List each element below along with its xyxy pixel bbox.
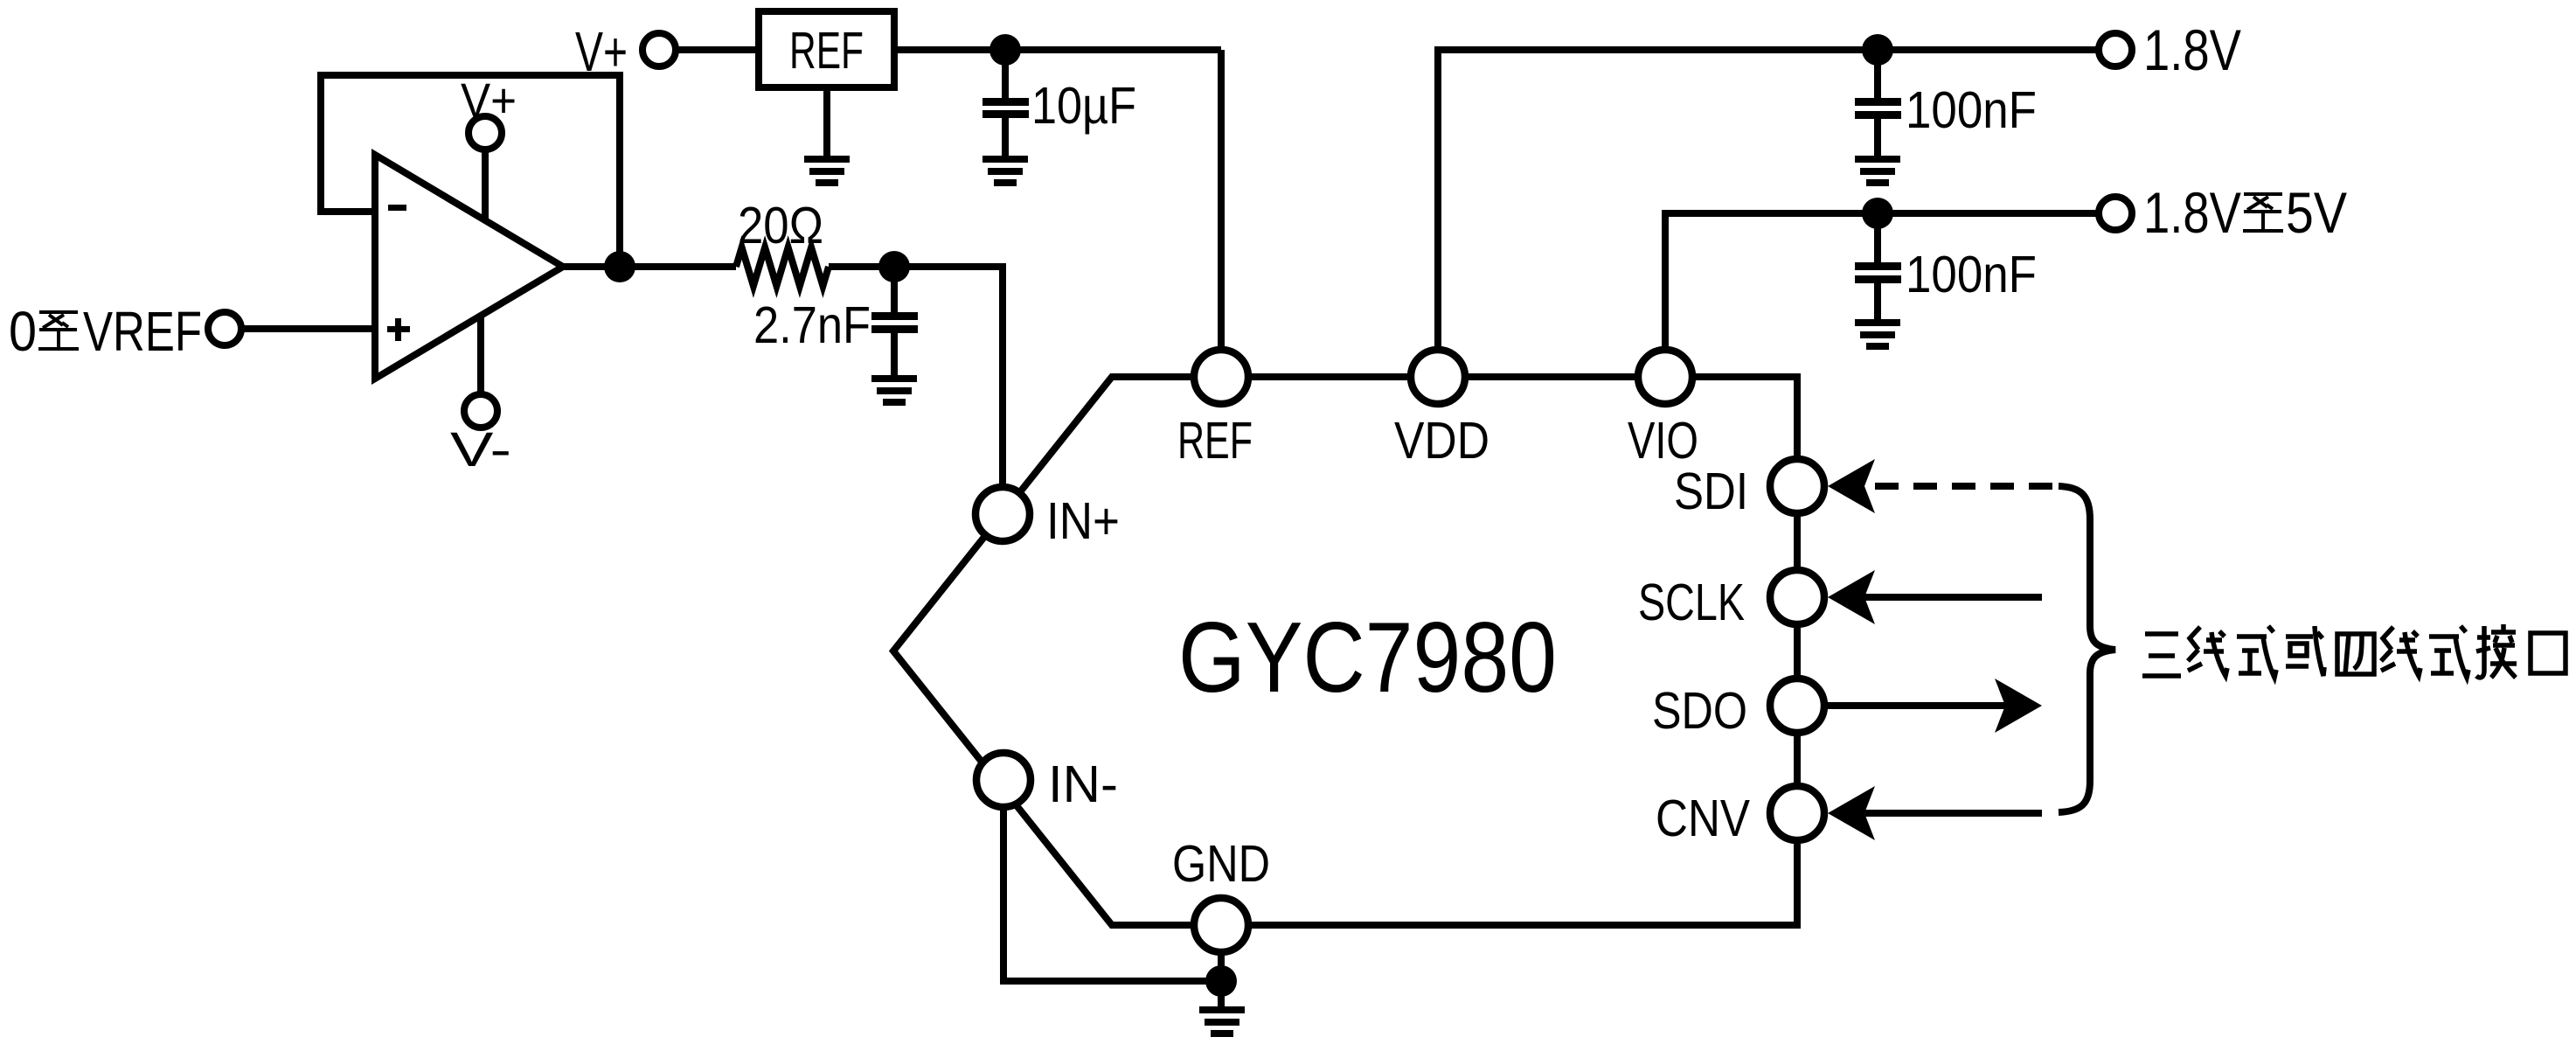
glyph 式 <box>2237 626 2276 678</box>
ADC GYC7980 chip outline <box>893 377 1797 925</box>
pin SCLK circle <box>1770 570 1824 624</box>
wire V+ pin stem <box>482 133 489 221</box>
terminal 0至VREF circle <box>208 312 241 345</box>
svg-text:1.8V: 1.8V <box>2143 17 2241 82</box>
node op-amp output junction <box>604 251 635 282</box>
node 100nF junction on 1.8V rail <box>1862 34 1893 66</box>
wire VIO pin to 1.8V-5V rail <box>1665 213 2097 377</box>
svg-text:REF: REF <box>789 22 864 80</box>
svg-text:CNV: CNV <box>1656 790 1751 847</box>
svg-text:REF: REF <box>1177 412 1253 470</box>
svg-text:SDI: SDI <box>1674 463 1748 520</box>
svg-text:SDO: SDO <box>1652 682 1747 740</box>
capacitor C1 10uF plates <box>982 98 1029 118</box>
glyph 式 (second) <box>2429 626 2468 678</box>
terminal V+ circle <box>642 33 676 66</box>
capacitor C3 100nF plates <box>1855 98 1901 119</box>
pin REF circle <box>1194 350 1248 404</box>
capacitor C2 2.7nF stem <box>891 267 898 312</box>
capacitor C3 100nF stem <box>1874 50 1881 98</box>
svg-text:100nF: 100nF <box>1906 246 2037 303</box>
wire SDI dashed input arrow <box>1875 483 2056 490</box>
svg-text:IN+: IN+ <box>1046 492 1120 550</box>
glyph 或 <box>2286 626 2324 676</box>
op-amp plus sign <box>387 326 410 332</box>
pin VDD circle <box>1411 350 1465 404</box>
terminal 1.8V circle <box>2099 33 2132 66</box>
ground below 10uF <box>982 156 1028 186</box>
wire op-amp output to resistor <box>563 263 736 270</box>
glyph 四 <box>2337 634 2374 674</box>
pin VIO circle <box>1638 350 1692 404</box>
svg-text:2.7nF: 2.7nF <box>753 296 871 354</box>
resistor 20Ω zigzag <box>736 247 829 286</box>
node GND junction <box>1205 965 1237 997</box>
capacitor C2 2.7nF plates <box>871 312 918 333</box>
ground below REF block <box>804 156 850 186</box>
op-amp V+ pin circle <box>469 116 502 150</box>
glyph 线 (second) <box>2381 627 2420 676</box>
wire V+ terminal to REF block <box>676 46 759 53</box>
op-amp minus sign <box>388 205 406 211</box>
svg-text:VIO: VIO <box>1628 412 1698 470</box>
voltage reference REF box <box>759 11 894 87</box>
wire op-amp noninverting input from 0至VREF terminal <box>241 325 375 332</box>
node 10uF junction <box>989 34 1021 66</box>
svg-text:V+: V+ <box>575 20 628 83</box>
wire VDD pin to 1.8V rail <box>1438 50 2097 377</box>
capacitor C1 10uF stem <box>1002 50 1009 98</box>
svg-text:5V: 5V <box>2286 180 2347 245</box>
pin SDO circle <box>1770 679 1824 733</box>
label 三线式或四线式接口 : glyph 三 <box>2142 634 2181 676</box>
glyph 口 <box>2531 633 2566 673</box>
glyph 接 <box>2476 624 2517 678</box>
wire CNV input arrow <box>1864 810 2042 817</box>
wire SCLK input arrow <box>1864 594 2042 601</box>
capacitor C4 100nF plates <box>1855 262 1901 283</box>
brace grouping SDI/SCLK/SDO/CNV <box>2059 486 2115 812</box>
wire REF block output to chip REF pin <box>894 46 1221 53</box>
glyph 线 <box>2188 627 2227 676</box>
op-amp U1 triangle <box>375 155 563 379</box>
node 100nF junction on VIO rail <box>1862 198 1893 229</box>
svg-text:IN-: IN- <box>1048 755 1118 813</box>
svg-text:VREF: VREF <box>83 300 202 363</box>
wire V- pin stem <box>477 315 484 411</box>
wire 100nF to ground <box>1874 119 1881 157</box>
svg-text:V-: V- <box>450 421 511 477</box>
pin GND circle <box>1194 898 1248 952</box>
ground below 2.7nF <box>871 375 917 406</box>
wire IN- to ground junction <box>1003 780 1221 981</box>
terminal 1.8V至5V circle <box>2099 197 2132 230</box>
svg-text:V+: V+ <box>461 73 517 128</box>
capacitor C4 100nF stem <box>1874 213 1881 262</box>
svg-text:100nF: 100nF <box>1906 81 2037 139</box>
svg-text:1.8V: 1.8V <box>2143 180 2241 245</box>
ground below C4 <box>1855 319 1900 350</box>
wire 10uF to ground <box>1002 118 1009 157</box>
node 2.7nF junction <box>878 251 910 282</box>
ground below C3 <box>1855 156 1900 186</box>
glyph 至 in 0至VREF <box>38 312 79 349</box>
svg-text:SCLK: SCLK <box>1638 574 1745 631</box>
svg-text:20Ω: 20Ω <box>738 197 823 254</box>
pin IN+ circle <box>976 487 1030 541</box>
wire GND pin stem <box>1218 925 1225 1007</box>
svg-text:0: 0 <box>9 300 37 363</box>
pin CNV circle <box>1770 786 1824 840</box>
wire C4 to ground <box>1874 283 1881 320</box>
ground below GND pin <box>1199 1006 1245 1037</box>
wire REF block ground stem <box>823 91 830 157</box>
wire 2.7nF to ground <box>891 333 898 376</box>
svg-text:VDD: VDD <box>1394 412 1489 470</box>
svg-text:GND: GND <box>1172 835 1270 893</box>
wire SDO output arrow <box>1828 702 2005 709</box>
wire op-amp feedback loop (output to inverting input) <box>321 75 620 267</box>
svg-text:GYC7980: GYC7980 <box>1178 602 1557 713</box>
svg-text:10µF: 10µF <box>1031 77 1136 135</box>
op-amp V- pin circle <box>464 394 497 428</box>
pin IN- circle <box>976 753 1031 807</box>
wire resistor to IN+ corner <box>829 267 1003 512</box>
glyph 至 in 1.8V至5V <box>2243 194 2283 231</box>
pin SDI circle <box>1770 459 1824 513</box>
